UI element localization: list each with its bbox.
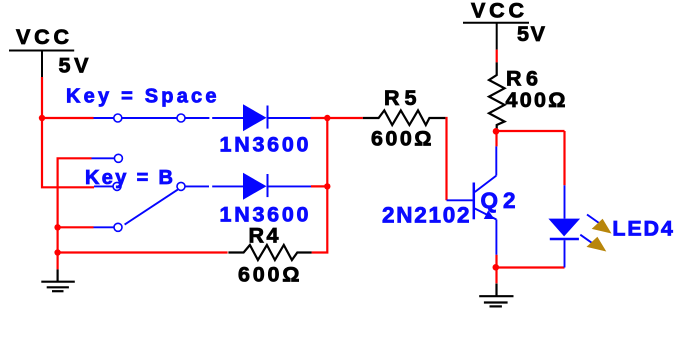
svg-text:LED4: LED4 xyxy=(612,217,673,241)
svg-text:5V: 5V xyxy=(517,22,546,46)
svg-text:Key = Space: Key = Space xyxy=(66,86,217,108)
svg-text:R4: R4 xyxy=(249,224,279,248)
svg-text:400Ω: 400Ω xyxy=(506,88,566,112)
svg-text:VCC: VCC xyxy=(471,0,524,23)
svg-text:Key = B: Key = B xyxy=(85,167,173,189)
svg-text:Q2: Q2 xyxy=(481,188,516,213)
svg-text:5V: 5V xyxy=(59,54,90,78)
svg-text:600Ω: 600Ω xyxy=(371,127,432,151)
svg-text:VCC: VCC xyxy=(16,25,69,49)
svg-text:600Ω: 600Ω xyxy=(238,263,300,287)
